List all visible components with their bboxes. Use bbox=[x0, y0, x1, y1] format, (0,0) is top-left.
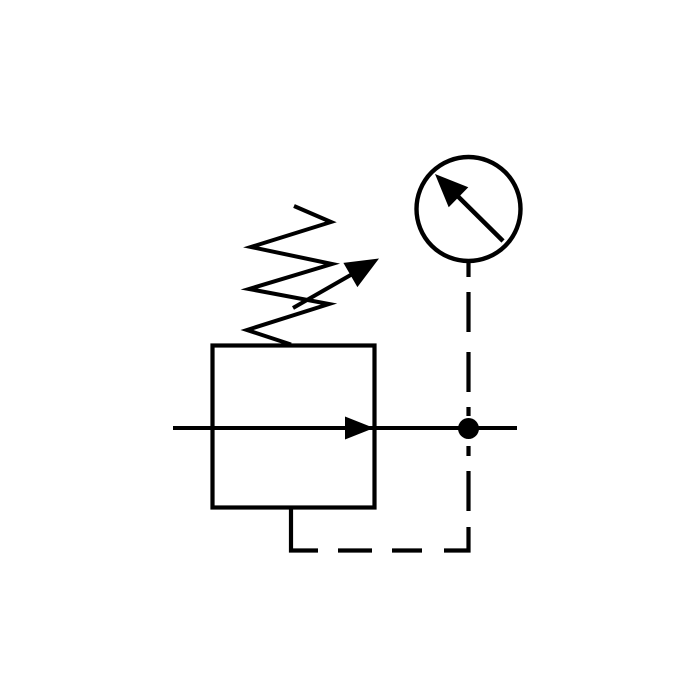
adjustment arrowhead bbox=[343, 259, 379, 288]
adjustment spring bbox=[247, 206, 332, 345]
flow arrow bbox=[345, 417, 374, 440]
regulator body (valve box) bbox=[213, 346, 375, 508]
flow line inlet (left wire) bbox=[173, 426, 213, 430]
pilot wire: bottom dashed horizontal segments bbox=[338, 548, 422, 552]
flow line through valve bbox=[213, 426, 375, 430]
junction node (dot) bbox=[458, 418, 479, 439]
pilot wire: corner dash (bottom-right L) bbox=[444, 527, 469, 551]
pilot wire: vertical dashed segments (gauge to junction to corner) bbox=[466, 263, 470, 511]
pressure gauge body bbox=[417, 157, 521, 261]
adjustment arrow shaft bbox=[293, 269, 362, 309]
flow line outlet (right wire) bbox=[375, 426, 518, 430]
gauge needle shaft bbox=[452, 191, 503, 242]
pilot wire: solid drop from box bottom bbox=[291, 508, 318, 551]
gauge needle arrowhead bbox=[435, 174, 468, 207]
